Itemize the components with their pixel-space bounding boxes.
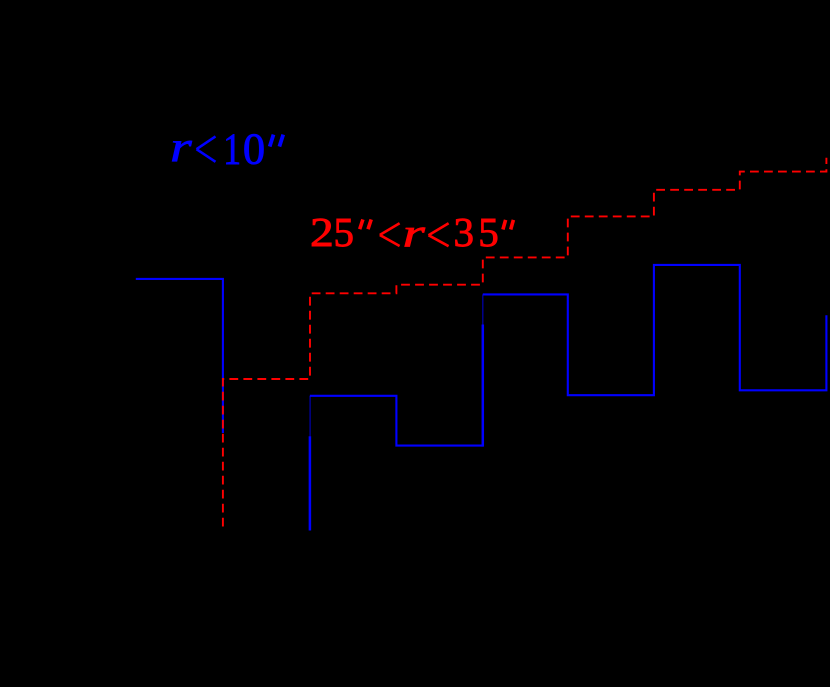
svg-text:1: 1 [223,124,241,174]
svg-text:r: r [170,124,192,171]
blue histogram bright rise at x=483 [482,325,485,447]
blue histogram part 2 [310,396,483,446]
svg-text:r: r [403,211,426,255]
blue histogram bright drop at x=310 [309,436,312,530]
svg-text:2: 2 [310,209,334,255]
blue histogram part 3 [483,265,827,395]
blue histogram thin rise at x=483 [482,294,484,324]
svg-text:5: 5 [478,209,499,255]
blue label r<10'' [170,123,283,173]
svg-text:5: 5 [334,209,355,255]
red dashed histogram curve (25''<r<35'') [223,158,827,527]
red label 25''<r<35'' [310,209,513,255]
svg-text:3: 3 [453,209,474,255]
blue histogram curve (r<10'') part 1 [136,279,223,433]
svg-text:0: 0 [243,123,265,173]
blue histogram thin drop at x=310 [309,396,311,437]
